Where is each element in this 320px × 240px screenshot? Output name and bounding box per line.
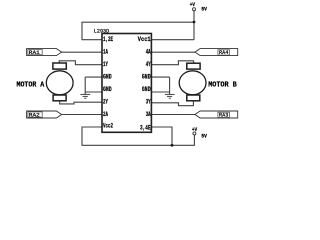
IC U1 body: [102, 34, 151, 133]
wire 1,2E to +5V top loop: [82, 22, 194, 40]
svg-text:GND: GND: [142, 86, 151, 93]
svg-text:2A: 2A: [103, 111, 108, 118]
terminal RA4 (right top): [195, 49, 238, 57]
wire RA2 to 2A: [62, 114, 102, 116]
svg-text:RA3: RA3: [219, 112, 228, 119]
wire GND pins right: [151, 77, 170, 94]
power +5V bottom: [192, 127, 197, 135]
svg-text:4A: 4A: [146, 49, 151, 56]
terminal RA3 (right bottom): [195, 111, 238, 119]
svg-text:L293D: L293D: [94, 28, 109, 34]
svg-text:5V: 5V: [201, 133, 207, 139]
wire 4Y to motor B top: [151, 61, 193, 65]
svg-text:RA4: RA4: [219, 49, 229, 56]
wire 1Y to motor A top: [59, 61, 102, 65]
svg-text:GND: GND: [103, 74, 112, 81]
motor A: [46, 63, 73, 101]
wire 4A to terminal RA4: [151, 51, 195, 53]
wire Vcc2 to bottom +5V: [82, 127, 194, 145]
wire GND pins left: [85, 77, 102, 94]
svg-text:GND: GND: [103, 86, 112, 93]
svg-text:GND: GND: [142, 74, 151, 81]
terminal RA1: [27, 49, 62, 56]
svg-text:RA2: RA2: [29, 111, 40, 118]
svg-text:2Y: 2Y: [103, 99, 108, 106]
wire 3,4E to bottom +5V: [151, 127, 172, 145]
power +5V top: [190, 2, 196, 11]
svg-text:1Y: 1Y: [103, 61, 108, 68]
junction top +5V node: [193, 21, 196, 24]
ground left: [81, 94, 91, 98]
svg-text:3Y: 3Y: [146, 99, 151, 106]
svg-text:3,4E: 3,4E: [140, 124, 151, 131]
svg-text:1A: 1A: [103, 49, 108, 56]
wire 3Y to motor B bottom: [151, 100, 193, 105]
terminal RA2: [27, 111, 62, 118]
svg-text:MOTOR A: MOTOR A: [17, 81, 45, 89]
ground right: [165, 94, 175, 98]
svg-text:5V: 5V: [201, 7, 207, 13]
junction bottom +5V node: [171, 144, 174, 147]
svg-text:+V: +V: [190, 2, 195, 8]
svg-text:MOTOR B: MOTOR B: [208, 81, 237, 89]
motor B: [179, 63, 206, 101]
svg-text:RA1: RA1: [29, 49, 41, 56]
svg-text:Vcc1: Vcc1: [138, 36, 151, 43]
svg-text:Vcc2: Vcc2: [103, 123, 113, 130]
wire Vcc1 to +5V: [151, 11, 194, 40]
wire 3A to terminal RA3: [151, 114, 195, 116]
svg-text:1,2E: 1,2E: [103, 36, 113, 43]
svg-text:+V: +V: [192, 127, 197, 133]
wire RA1 to 1A: [62, 51, 102, 53]
svg-text:3A: 3A: [146, 111, 151, 118]
wire 2Y to motor A bottom: [60, 100, 102, 104]
svg-text:4Y: 4Y: [146, 61, 151, 68]
